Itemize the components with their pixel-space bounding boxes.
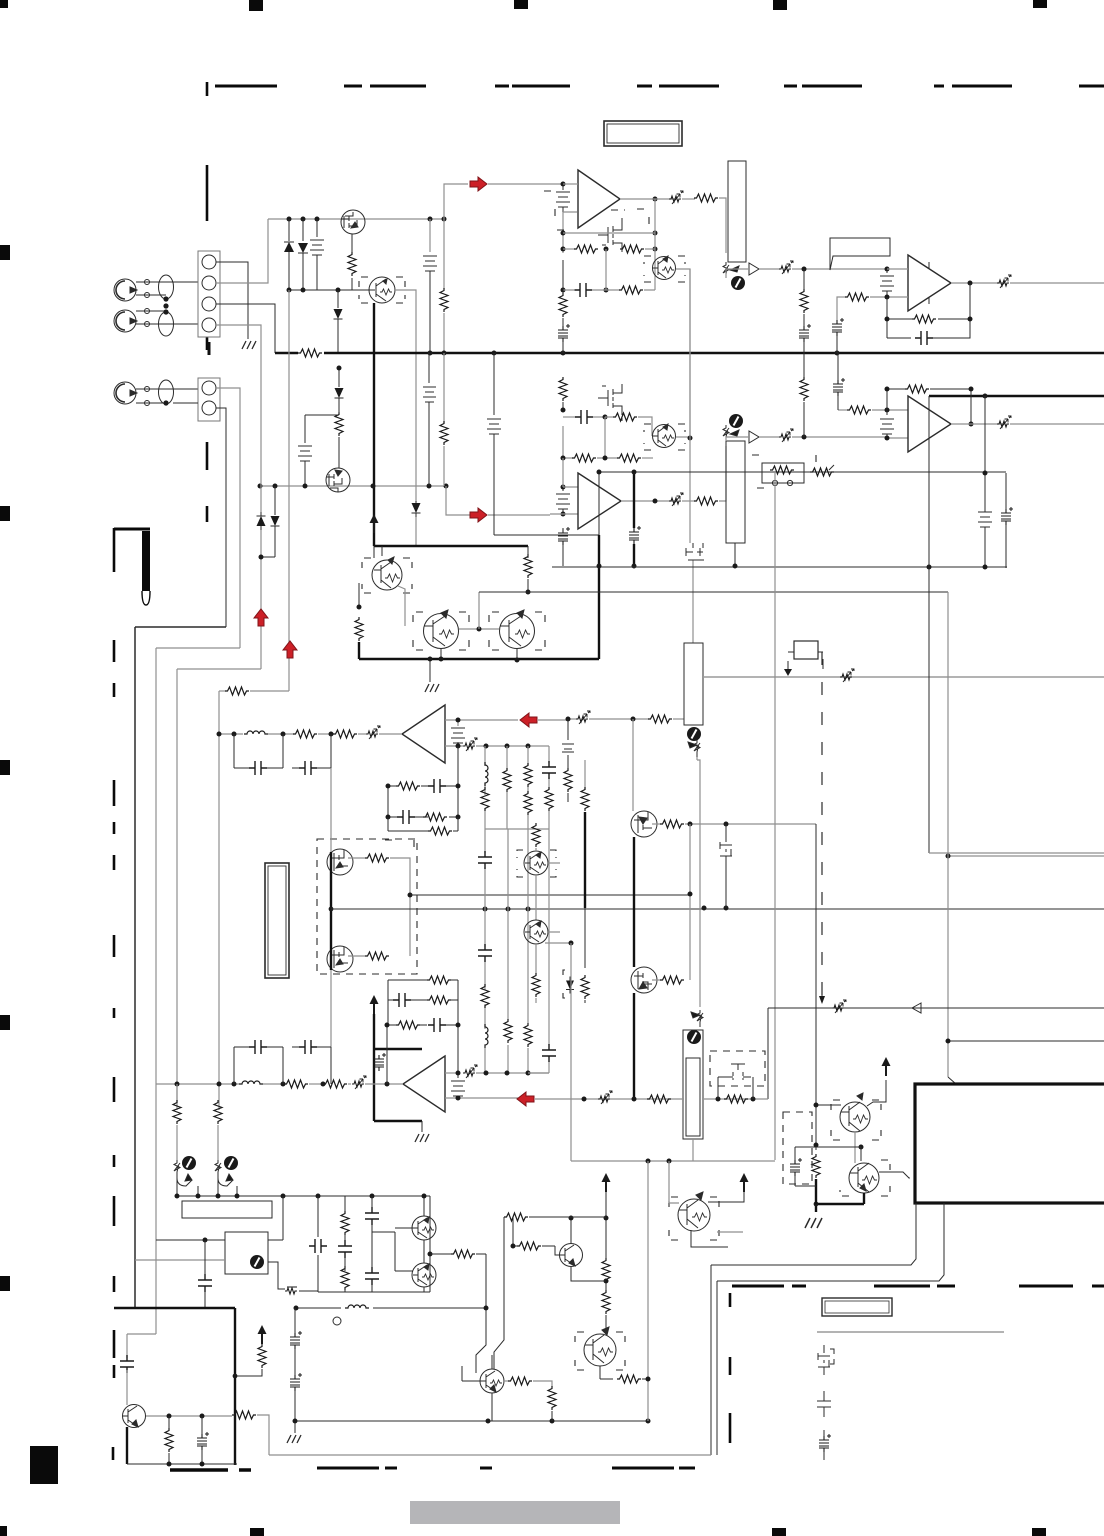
U1 lower network dots (561, 197, 658, 293)
crop dash bottom mid y=1468 (317, 1467, 695, 1470)
wire x155 to cap (127, 1333, 156, 1335)
vertical x930 (928, 396, 930, 853)
electrolytic EC5 (558, 527, 570, 545)
wire R10 left leg (837, 297, 840, 320)
trimmer TR10 (348, 1083, 351, 1085)
open triangle left (912, 1003, 921, 1013)
wire Q2 base right (395, 290, 416, 486)
junction dots y290 (287, 288, 341, 293)
FET Q13 (327, 946, 353, 972)
thick rail x634 drivers (633, 837, 635, 967)
transistor Q20 (412, 1216, 436, 1240)
long rail x135 (134, 627, 136, 1308)
wire into IC y1260 (135, 1259, 225, 1261)
resistor R7 (562, 284, 564, 296)
column x528 (527, 829, 529, 1073)
resistor R41 (481, 984, 489, 1008)
dots y1416 (167, 1414, 205, 1419)
wire out1 to edge (1010, 282, 1104, 284)
loop junction dots (927, 471, 988, 570)
wire Q2 collector thick (373, 303, 375, 546)
Q20 Q21 links (423, 1196, 425, 1292)
wire jack1 to connector (136, 282, 198, 295)
wire D6 join (261, 530, 275, 557)
junction dots U3 in (561, 485, 566, 517)
registration mark top x=250 (249, 0, 263, 11)
wire to U2 input (792, 268, 887, 270)
resistor R8 (682, 198, 695, 200)
dashed box Q9 (362, 558, 412, 593)
wire Q23 collector top (491, 1355, 493, 1369)
resistor R65 (168, 1416, 170, 1429)
capacitor C30 (309, 1239, 327, 1253)
FET Q7 (686, 543, 704, 560)
wire U3 lower rail (540, 472, 599, 535)
right loop x430 (429, 1196, 431, 1292)
wire y627 link black (135, 626, 226, 628)
dashed marks CN3 (752, 455, 816, 488)
registration mark left y=1282 (0, 1276, 10, 1291)
top rail wire y219 (268, 218, 444, 220)
T22 emitter thick (126, 1427, 128, 1464)
wire U2 out (951, 282, 1004, 284)
bus y895 (410, 894, 690, 896)
vertical x486 (476, 1254, 486, 1373)
connector CN1 tail tick (208, 342, 211, 355)
trimmer TR13 (285, 1287, 297, 1294)
resistor R59 (341, 1266, 349, 1290)
vertical x948 (947, 592, 949, 1077)
resistor R55 (647, 1095, 671, 1103)
base feed x395 (372, 1228, 413, 1271)
right cluster column x485 (484, 746, 486, 829)
electrolytic EC1 (562, 318, 564, 326)
resistor R60 (430, 1253, 451, 1255)
wire RL4 bottom (692, 1139, 694, 1161)
resistor R32 (524, 763, 532, 787)
box bottom wire 2 (717, 1203, 944, 1281)
electrolytic EC3 (832, 318, 844, 336)
dashed box Q19 (840, 1160, 890, 1196)
bus dots y909 (483, 906, 729, 912)
U6 plus row y1073 (445, 1072, 458, 1074)
wire y848 (929, 852, 1104, 854)
registration mark bottom x=1034 (1032, 1528, 1046, 1536)
diode D3 (337, 290, 339, 308)
wire jack2 to connector (136, 311, 198, 324)
wire Q26 emitter (691, 1230, 728, 1247)
inductor L3 vertical (485, 1024, 488, 1048)
registration mark top x=515 (514, 0, 528, 9)
wire y648 link (156, 647, 240, 649)
capacitor C2b (423, 353, 436, 486)
resistor R46 (652, 823, 661, 825)
resistor R39 (427, 976, 451, 984)
resistor R27 (396, 782, 420, 790)
resistor R3 on bus (298, 348, 324, 358)
wire y1041 (948, 1040, 1104, 1042)
vertical x775 (774, 472, 776, 1160)
column x508 (507, 829, 509, 1073)
wire U3 inputs (550, 458, 578, 514)
connector CN2 (198, 378, 220, 421)
pot VR2 zero mark (729, 414, 743, 428)
wire to U1 plus (563, 212, 577, 253)
wire U2 inputs (887, 269, 908, 297)
transistor Q9 (372, 557, 402, 590)
input cap stack C9 (556, 487, 570, 514)
bus junction dots (428, 351, 840, 356)
capacitor C19 (542, 761, 556, 779)
resistor R1 (351, 234, 353, 252)
wire Q24 emitter (599, 1366, 601, 1379)
gnd stub (429, 660, 431, 682)
row y1099 right part (704, 1098, 768, 1100)
electrolytic EC9 (374, 1053, 386, 1071)
ground G2 (805, 1218, 822, 1228)
wire D7 down (415, 517, 417, 546)
junction dots y458 (561, 456, 608, 461)
electrolytic EC6 (833, 378, 845, 396)
electrolytic EC2 (803, 314, 805, 326)
resistor R38 (428, 827, 452, 835)
trimmer TR11 (463, 1065, 477, 1078)
registration mark bottom-left corner (0, 1526, 7, 1536)
resistor R2 (443, 219, 445, 289)
op-amp U2 (908, 255, 951, 311)
transistor Q14 (524, 851, 548, 875)
legend FET symbol (818, 1345, 834, 1375)
resistor box CN3 (762, 463, 804, 486)
pot VR1 (723, 262, 739, 278)
trimmer TR9 (832, 1000, 846, 1013)
pot VR3 (687, 727, 701, 741)
resistor R43 (524, 1023, 532, 1047)
capacitor C24 (542, 1044, 556, 1062)
resistor R34 (545, 787, 553, 811)
black arrow A6 (740, 1173, 749, 1192)
cap C34 (126, 1334, 128, 1358)
resistor R14 (563, 426, 573, 458)
dots row y1084 (175, 1082, 390, 1087)
wire x633 top (632, 719, 634, 811)
resistor R6 (620, 245, 644, 253)
capacitor C8 (563, 416, 576, 418)
wire (239, 1083, 285, 1085)
corner x768 (767, 1008, 769, 1099)
bus y566 (552, 566, 1007, 568)
pot0 inside IC (250, 1255, 264, 1269)
op-amp U4 (908, 396, 951, 452)
junction dots y659 (428, 657, 520, 663)
row y1196 (176, 1195, 430, 1197)
down arrow marker (787, 661, 789, 673)
resistor R56 (176, 1084, 178, 1101)
wire jack3 to connector (136, 389, 198, 403)
capacitor C17 (397, 810, 415, 824)
cap stack C28 (451, 1073, 465, 1098)
electrolytic EC10 (201, 1416, 203, 1434)
resistor R5 (563, 248, 575, 250)
resistor R42 (504, 1019, 512, 1043)
main row y1084 (156, 1083, 239, 1085)
dots x606 (604, 1216, 609, 1284)
capacitor C1 (310, 219, 324, 290)
wire CN1 pin4 down (216, 325, 261, 386)
tall rect RL3 (684, 643, 703, 725)
wire Q23 emitter (491, 1393, 493, 1421)
FET Q1 (341, 210, 365, 234)
trimmer TR14 (840, 669, 854, 682)
thick box PS (915, 1084, 1104, 1203)
capacitor C22 (478, 851, 492, 869)
fb junction dots U4 (885, 387, 988, 427)
wire y1161 (571, 1160, 775, 1162)
wire y824 (690, 823, 816, 825)
base row y1416 (146, 1415, 232, 1417)
wire VR2 to buffer (726, 437, 780, 441)
crop dash top-left vertical tick (206, 82, 209, 350)
pot VR4 (691, 1010, 703, 1027)
fb dots (386, 784, 461, 820)
open circle marker (333, 1317, 341, 1325)
wire Q9 emitter to Q10 (398, 586, 405, 626)
junction dots input (163, 296, 168, 405)
wire Q26 base (669, 1161, 679, 1203)
crop dash bottom-left y=1468 (170, 1468, 251, 1471)
wire to U4 plus (792, 436, 887, 438)
dots y1161 (646, 1159, 672, 1164)
capacitor C32 (365, 1207, 379, 1225)
vertical x816 (815, 824, 817, 1145)
RCA jack J2 (114, 310, 137, 332)
wire out2 to edge (1010, 423, 1104, 425)
tall rect RL4 (683, 1030, 703, 1139)
column x485 mid (484, 829, 486, 1029)
junction out1 (968, 281, 973, 286)
wire x261 lower (260, 530, 262, 669)
column x528 (527, 746, 529, 829)
resistor R40 (427, 996, 451, 1004)
capacitor C31 (338, 1240, 352, 1258)
registration mark bottom x=252 (250, 1528, 264, 1536)
op-amp U6 (403, 1056, 445, 1112)
ferrite bead B1 (159, 275, 174, 299)
registration mark left y=512 (0, 506, 10, 521)
resistor R13 (613, 413, 637, 421)
long rail x219 (218, 691, 220, 1110)
resistor R58 (341, 1211, 349, 1235)
dashed box Q14 (517, 850, 556, 877)
wire x289 down (288, 290, 290, 691)
capacitor C12 (487, 419, 540, 535)
pot VR6 wiper leg (236, 1186, 238, 1196)
wire Q10-Q11 bases (459, 628, 499, 630)
resistor R17 (803, 353, 805, 378)
transistor Q11 (500, 610, 535, 649)
junction dots x634 (632, 470, 637, 569)
resistor R69 (602, 1290, 610, 1314)
junction dot U1 in (561, 182, 566, 187)
crop dashed horizontal line y=86 (215, 85, 1104, 88)
resistor R29 (564, 768, 572, 792)
junction dot U2 plus (885, 295, 890, 300)
wire CN2 pin1 (216, 388, 240, 648)
legend capacitor (817, 1391, 831, 1417)
resistor R6b (619, 286, 643, 294)
label box LB3 (182, 1201, 272, 1218)
dashed marks (385, 840, 414, 848)
dashed box Q18 (831, 1100, 881, 1140)
resistor R45 (532, 973, 540, 997)
transistor Q4 (653, 256, 676, 280)
feedback resistor R20 (887, 388, 905, 390)
transistor Q22 bottom-left (123, 1405, 146, 1428)
transistor Q18 (840, 1093, 870, 1132)
registration mark left y=766 (0, 760, 10, 775)
registration mark top-left corner (0, 0, 8, 8)
wire Q6 right (676, 436, 690, 438)
wire CN1 pin2 up (216, 219, 268, 283)
FET F2 (727, 1064, 751, 1080)
junction dots y566 (597, 564, 738, 569)
lower fb row y831 (388, 817, 458, 831)
bus y909 main (331, 908, 1104, 910)
dashed arrow end (821, 986, 823, 998)
wire x690 driver link (689, 824, 691, 980)
main row y734 (219, 733, 243, 735)
op-amp U3 (578, 473, 621, 529)
FET Q8 (326, 468, 350, 492)
resistor R23 (527, 546, 529, 558)
capacitor C16 (428, 779, 446, 793)
wire RL2 bottom (734, 543, 736, 566)
resistor R70 (600, 1378, 613, 1380)
feedback row y1025 (387, 1025, 458, 1084)
capacitor C25 (249, 1040, 267, 1054)
thick rail x331 (330, 852, 332, 970)
capacitor C13 (249, 761, 267, 775)
dots row y734 (217, 732, 334, 737)
wire Q24 base column x606 (605, 1192, 607, 1261)
callout box N1 (830, 238, 890, 270)
resistor R19 (847, 406, 871, 414)
wire CN1 pin3 to bus (216, 304, 275, 353)
dots y1308 (294, 1306, 489, 1311)
wire U4 plus (887, 437, 908, 439)
wire VR1 to buffer (726, 269, 780, 278)
vertical x571 (570, 943, 572, 1161)
column x507 (506, 746, 508, 829)
thick frame U6 (374, 1014, 422, 1121)
wire U4 minus from EC6 (838, 409, 847, 411)
wire CN2 pin2 thick (173, 403, 226, 627)
ecap column x295 (294, 1308, 296, 1333)
trimmer TR2 (779, 261, 793, 274)
wire x690 vertical link (690, 269, 693, 643)
inductor L4 (239, 1081, 263, 1084)
thick bus y1308 (114, 1307, 235, 1309)
dots y719-746 (456, 717, 636, 749)
capacitor C2 (429, 219, 431, 252)
resistor R12 (559, 377, 567, 401)
resistor R31 (503, 768, 511, 792)
resistor R30 (481, 787, 489, 811)
second input shield cap C3 (305, 415, 339, 443)
wire Q18 base (816, 1104, 841, 1106)
column x585 (584, 760, 586, 790)
dots x430 (422, 1194, 433, 1257)
legend electrolytic (823, 1430, 825, 1460)
wire T16 top link (816, 1147, 861, 1161)
trimmer TR1 (669, 191, 683, 204)
wire U1 minus (563, 183, 578, 185)
resistor R21 (443, 353, 445, 423)
dashed box Q24 (575, 1332, 625, 1370)
marker pen icon (114, 528, 150, 531)
dots y1464 (167, 1462, 205, 1467)
resistor R62 (517, 1242, 541, 1250)
wire y856 (948, 855, 1104, 857)
tall rect RL2 (726, 441, 745, 543)
wire Q25 collector (570, 1218, 572, 1244)
inductor L1 (244, 731, 268, 734)
black arrow A4 (258, 1325, 267, 1344)
signal box N2 (794, 641, 818, 659)
resistor R51 (815, 1145, 817, 1150)
wire Q10 emitter (440, 649, 442, 659)
resistor R54 (396, 1021, 420, 1029)
dots U6 rows (456, 1071, 637, 1102)
transistor Q15 (524, 920, 548, 944)
transistor Q25 (560, 1244, 583, 1267)
trimmer TR8 (458, 745, 463, 747)
wire x218 to row (217, 1178, 219, 1196)
feedback cap C7 (887, 337, 911, 339)
resistor R26 (333, 730, 357, 738)
row y1073 tail (528, 1072, 549, 1074)
vertical x711 (710, 1265, 712, 1455)
diode D1 (288, 219, 290, 241)
wire C8 to x605 (593, 416, 605, 418)
junction dot x410 (408, 893, 413, 898)
dashed box Q11 (489, 612, 545, 650)
capacitor C33 (365, 1267, 379, 1285)
resistor R33 (524, 791, 532, 815)
dashed box Q6 (644, 424, 685, 450)
vertical x504 (494, 1217, 504, 1369)
rows y1217 y1246 (504, 1217, 606, 1246)
crop dash left column x=114 (113, 640, 114, 1460)
transistor Q26 (678, 1192, 710, 1231)
red arrow RA2 (470, 508, 487, 522)
pot VR5 (174, 1160, 192, 1186)
dashed box fragments U1 (544, 191, 649, 230)
loop corner x1006 (1005, 473, 1007, 509)
diagonal into box (948, 1077, 956, 1084)
transistor Q10 (424, 610, 459, 649)
ground G1 (242, 341, 256, 349)
U6 minus row y1098 (445, 1097, 518, 1099)
wire to red arrow RA2 (446, 486, 470, 515)
wire R4 to Q8 (338, 450, 340, 468)
registration mark top x=1034 (1033, 0, 1047, 8)
wire pot chain x700 (697, 757, 700, 1007)
wire Q25 base (555, 1246, 561, 1255)
FET symbol F1 (720, 824, 732, 908)
crop dash right section y=1286 (732, 1285, 1104, 1288)
fold dashed line x822 (821, 652, 823, 996)
